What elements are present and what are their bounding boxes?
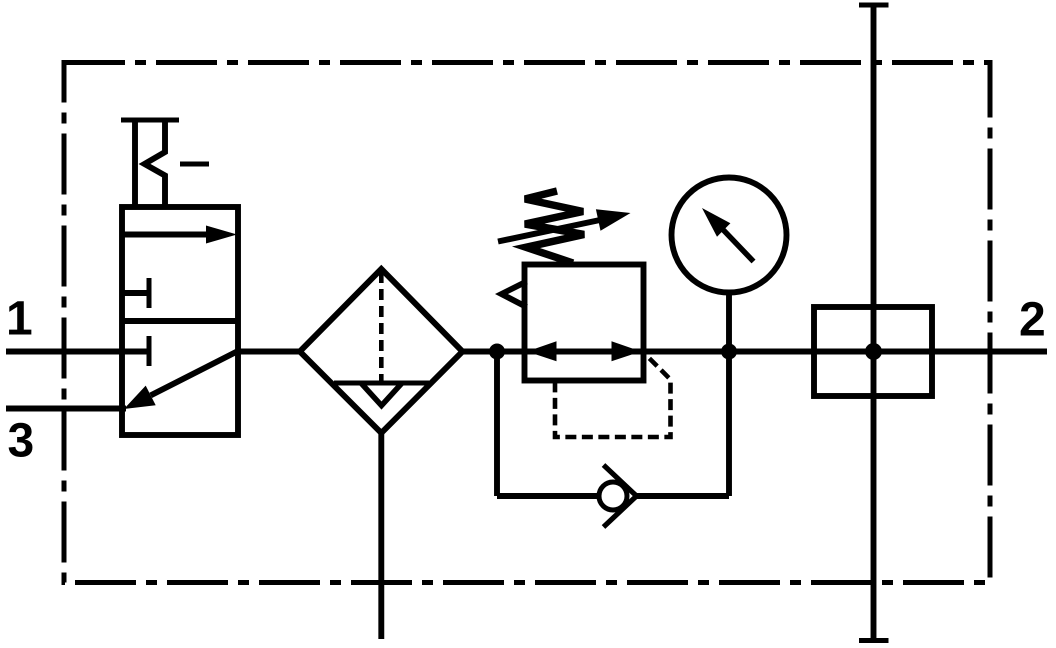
wire: port 1 supply line: [6, 349, 122, 355]
valve body (3/2-way shut-off valve, two position boxes): [122, 207, 238, 435]
wire: bypass right riser: [726, 352, 732, 496]
gauge needle: [702, 208, 754, 262]
svg-text:1: 1: [6, 293, 33, 346]
valve flow path arrow (upper position): [123, 226, 237, 244]
water drain triangle: [361, 383, 402, 406]
valve blocked port symbol (lower position): [123, 336, 149, 366]
regulator relief vent triangle: [502, 282, 527, 308]
wire: port 3 exhaust line: [6, 406, 126, 412]
pressure gauge: [672, 178, 787, 293]
junction dot A (regulator branch): [489, 344, 505, 360]
filter sump separator line: [334, 381, 429, 386]
valve blocked port symbol (upper position): [123, 278, 149, 308]
wire: valve outlet to filter: [238, 349, 300, 355]
wire: condensate drain line: [378, 433, 384, 639]
junction dot C (outlet tee): [865, 343, 882, 360]
manual actuator (slide lever with detent): [121, 120, 209, 207]
wire: bypass bottom right: [637, 493, 730, 499]
svg-text:3: 3: [8, 415, 35, 468]
pressure regulator box: [525, 265, 644, 381]
branch line top end bar: [859, 3, 889, 8]
wire: gauge stem: [726, 293, 732, 352]
check valve: [599, 465, 637, 527]
wire: bypass left drop: [494, 352, 500, 497]
filter body (diamond): [300, 269, 463, 433]
regulator adjustment arrow: [498, 209, 631, 241]
wire: main line from filter to outlet port 2: [463, 349, 1048, 355]
svg-text:2: 2: [1019, 294, 1046, 347]
regulator adjustment spring: [525, 191, 584, 263]
junction dot B (gauge branch): [721, 344, 737, 360]
enclosure (dash-dot assembly border): [64, 63, 990, 583]
wire: vertical branch line: [871, 5, 877, 641]
branch line bottom end bar: [859, 638, 889, 643]
wire: bypass bottom left: [497, 493, 599, 499]
pilot control line (dashed): [555, 355, 671, 438]
outlet block (branch tee body): [814, 307, 932, 396]
filter element (dashed centerline): [379, 272, 384, 381]
valve exhaust arrow (lower position): [124, 352, 237, 410]
regulator flow arrowheads: [527, 341, 641, 361]
